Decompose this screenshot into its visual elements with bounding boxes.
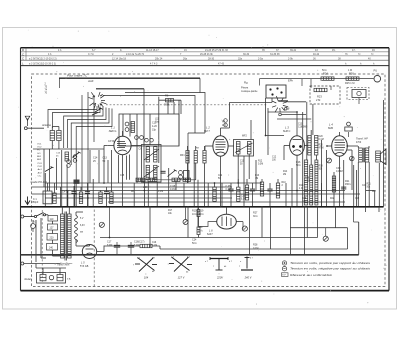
- svg-text:+11k: +11k: [305, 181, 311, 183]
- power transformer core: [65, 212, 67, 261]
- label L6: [207, 229, 213, 236]
- power transformer primary: [61, 214, 65, 258]
- svg-text:OC2: OC2: [37, 147, 42, 149]
- wire meas heater drop: [185, 207, 187, 220]
- wire rectifier leads: [76, 245, 140, 252]
- legend symbol EP box: [282, 273, 289, 277]
- trimmer pair C2 left: [73, 155, 77, 163]
- svg-text:R14: R14: [283, 171, 288, 173]
- resistor R20: [197, 227, 200, 235]
- bottom heavy rule: [21, 207, 359, 255]
- svg-text:0,05M: 0,05M: [336, 170, 343, 173]
- legend symbol minus: [282, 267, 286, 271]
- contact arrow mid: [73, 152, 81, 158]
- resistor R19: [197, 210, 200, 217]
- trimmer capacitor C16: [135, 136, 144, 140]
- tube L1 6E8: [114, 136, 131, 154]
- svg-text:4 7 4 3: 4 7 4 3: [150, 63, 158, 66]
- wire right bundle: [311, 100, 383, 207]
- label R10 fringe: [282, 182, 287, 187]
- measure point right: [323, 236, 328, 241]
- mains terminal top: [21, 215, 24, 218]
- junction block dark: [74, 180, 80, 184]
- wire L6 leads: [199, 207, 243, 227]
- antenna coil L11 primary: [50, 131, 54, 141]
- svg-text:R22: R22: [330, 198, 335, 200]
- legend symbol plus: [282, 261, 286, 265]
- pickup jack PU: [374, 75, 381, 82]
- IF transformer MF1 box: [142, 145, 162, 183]
- power section dashed separator: [93, 210, 95, 287]
- wire MF2 tails: [238, 154, 256, 207]
- svg-text:C26: C26: [302, 198, 307, 200]
- wire L4 leads: [327, 132, 358, 207]
- IF transformer MF1 coil c: [146, 165, 149, 179]
- wire antenna coil drop: [27, 127, 59, 150]
- trimmer pair C14: [67, 160, 71, 168]
- parts table values row 2: [48, 53, 374, 56]
- svg-text:2M: 2M: [283, 174, 286, 176]
- label R20: [198, 226, 203, 232]
- voltage tap box 110: [48, 216, 58, 222]
- switch contact wave: [168, 170, 177, 177]
- key jack box: [347, 88, 369, 100]
- detector transformer coils: [308, 136, 318, 156]
- wire transformer top stubs: [62, 207, 69, 214]
- wire R19 R20 link: [198, 207, 200, 238]
- wire L3 leads: [284, 112, 308, 207]
- wire left verticals: [44, 149, 75, 207]
- svg-text:1 M: 1 M: [299, 187, 303, 190]
- resistor R26: [346, 77, 359, 80]
- wire rail 5: [45, 197, 232, 199]
- rotary switch S1 lower arrows: [92, 108, 103, 115]
- svg-text:Relais: Relais: [25, 278, 33, 281]
- svg-text:110: 110: [50, 218, 54, 221]
- resistor R23: [314, 88, 327, 91]
- labels right column stack: [319, 136, 325, 171]
- svg-text:L 2: L 2: [206, 126, 210, 130]
- resistor R18: [315, 160, 318, 205]
- svg-text:R24: R24: [323, 72, 328, 76]
- relais lamp: [49, 275, 53, 279]
- wire L1 pin drops: [108, 155, 130, 184]
- svg-text:30 k: 30 k: [253, 215, 258, 218]
- wire osc to switch2: [230, 98, 273, 140]
- svg-text:L 08: L 08: [143, 187, 148, 189]
- switch S2 contact circles: [279, 108, 287, 116]
- wire fringe verticals right: [215, 168, 293, 207]
- svg-text:R18: R18: [305, 178, 310, 180]
- svg-text:R08: R08: [319, 166, 324, 168]
- svg-text:R26: R26: [349, 72, 354, 76]
- svg-text:6H8 C: 6H8 C: [283, 129, 290, 133]
- label C-05: [226, 185, 232, 191]
- svg-text:Pour ondes TC: Pour ondes TC: [67, 74, 88, 78]
- svg-text:50 k: 50 k: [322, 69, 327, 72]
- svg-text:1 M: 1 M: [348, 69, 352, 72]
- label Rg cadre prises: [241, 81, 258, 94]
- wire mains wiring: [24, 215, 61, 264]
- IF transformer MF2 coil b: [247, 142, 251, 155]
- svg-text:10 k: 10 k: [192, 213, 197, 216]
- svg-text:2-9b: 2-9b: [288, 58, 293, 61]
- HT secondary loops: [75, 212, 84, 246]
- capacitor C8: [160, 171, 165, 173]
- svg-text:240: 240: [49, 246, 54, 249]
- label C14: [93, 157, 98, 163]
- svg-text:32a: 32a: [238, 58, 243, 61]
- resistor R10 horizontal: [183, 178, 191, 181]
- trimmer capacitor C15: [125, 122, 129, 131]
- mains switch: [24, 213, 48, 218]
- rectifier tube L5: [82, 245, 96, 259]
- label C24: [192, 239, 197, 245]
- wire nested top horizontals: [103, 78, 205, 183]
- wire S2 outputs: [266, 98, 312, 155]
- wire fringe verticals left: [48, 179, 112, 207]
- wire rail AVC 2: [32, 186, 233, 188]
- label L3 6H8: [283, 126, 290, 134]
- svg-text:127 V: 127 V: [178, 276, 185, 280]
- resistor R3: [131, 122, 134, 133]
- label R9 100: [222, 121, 227, 127]
- wire top line 2: [96, 89, 144, 140]
- resistor R4: [99, 192, 102, 204]
- fuse: [31, 220, 36, 232]
- svg-text:GO: GO: [37, 153, 41, 155]
- switch linkage dashed: [106, 104, 268, 106]
- parts table frame: [21, 48, 390, 291]
- svg-text:1M: 1M: [255, 178, 258, 180]
- switch 240 pin labels: [239, 258, 254, 269]
- antenna coil L11 secondary: [57, 131, 61, 141]
- svg-text:0,1M: 0,1M: [158, 191, 163, 193]
- switch 104 pin labels: [133, 258, 156, 274]
- wire L3 plate feed: [268, 111, 298, 113]
- capacitor C4: [71, 192, 76, 194]
- wire fringe verticals mid: [134, 163, 208, 207]
- power transformer secondary: [68, 214, 72, 258]
- svg-text:a 2 9(7)9(12) 2-19 20-2 2): a 2 9(7)9(12) 2-19 20-2 2): [29, 58, 57, 61]
- svg-text:0,1M: 0,1M: [253, 247, 258, 250]
- label R19: [199, 210, 204, 216]
- svg-text:C13: C13: [298, 124, 303, 126]
- switch position diagram 127: [169, 257, 192, 272]
- wire antenna lead: [44, 128, 52, 132]
- wire cadre contact: [45, 167, 54, 172]
- svg-text:0,1M: 0,1M: [152, 245, 157, 247]
- svg-text:2-10 2a 7a 26 7b: 2-10 2a 7a 26 7b: [126, 53, 145, 56]
- svg-text:C3 50: C3 50: [108, 141, 115, 143]
- svg-text:30-32: 30-32: [243, 53, 250, 56]
- svg-text:0,1M: 0,1M: [319, 139, 324, 141]
- resistor R6: [166, 99, 174, 102]
- svg-text:6,3V: 6,3V: [80, 225, 85, 227]
- switch position diagram 220: [210, 257, 228, 270]
- capacitor C21: [267, 189, 272, 191]
- rotary switch S2 spokes: [272, 96, 288, 113]
- svg-text:104: 104: [144, 276, 149, 280]
- svg-text:R21: R21: [367, 184, 372, 186]
- trimmer pair C9 osc: [224, 119, 228, 127]
- resistor R24: [321, 77, 334, 80]
- svg-text:39-41: 39-41: [290, 49, 297, 52]
- switch 127 pin labels: [168, 257, 191, 274]
- svg-text:Rg: Rg: [244, 81, 248, 85]
- svg-text:Prise Plaque: Prise Plaque: [60, 263, 73, 265]
- svg-text:C 05: C 05: [244, 189, 250, 191]
- svg-text:390k: 390k: [164, 103, 170, 107]
- wire tuning nest 2: [82, 92, 94, 207]
- svg-text:127: 127: [50, 227, 55, 230]
- svg-text:R25 1 M: R25 1 M: [345, 82, 354, 85]
- wire top heavy TC line: [59, 77, 200, 79]
- parts table values row 1: [58, 49, 375, 52]
- output transformer windings: [359, 148, 369, 163]
- svg-text:OC1: OC1: [37, 144, 42, 146]
- resistor R8b: [194, 151, 197, 164]
- wire tuning nest 1: [48, 106, 112, 207]
- wire R23 drop: [330, 86, 332, 90]
- wire L2 leads: [205, 128, 234, 207]
- padder box C9b: [184, 171, 190, 180]
- svg-text:C16: C16: [241, 196, 246, 198]
- label R12 mid: [258, 161, 263, 166]
- tube L4 6M6: [332, 136, 348, 156]
- capacitor C23: [341, 187, 346, 189]
- svg-text:28-30: 28-30: [208, 58, 215, 61]
- svg-text:C20: C20: [319, 136, 324, 138]
- resistor R5 horizontal: [136, 178, 145, 181]
- resistor R14: [260, 182, 263, 196]
- choke resistor R22b: [140, 244, 152, 247]
- svg-text:MF1: MF1: [180, 155, 185, 157]
- resistor R1: [53, 193, 56, 204]
- svg-text:PO: PO: [37, 150, 40, 152]
- IF transformer MF1 tuning arrows: [144, 149, 159, 177]
- measure point power: [99, 222, 104, 227]
- label C17: [107, 241, 113, 247]
- switch position diagram 240: [241, 257, 253, 271]
- relais coil b: [57, 275, 63, 281]
- parts table row lines: [21, 48, 390, 61]
- svg-text:L 4: L 4: [329, 123, 333, 127]
- chassis dashed border: [32, 74, 386, 287]
- rotary switch S1 contact arrows: [93, 95, 103, 106]
- svg-text:45-: 45-: [332, 49, 336, 52]
- tube L3 6H8: [290, 136, 305, 156]
- resistor R15: [276, 183, 279, 198]
- resistor R12: [237, 187, 240, 201]
- resistor R8c: [203, 151, 206, 164]
- earth terminal: [25, 197, 30, 205]
- voltage tap box 240: [47, 244, 58, 251]
- wire rail screen: [60, 190, 345, 192]
- grid-cap resistor dashed box R23: [310, 86, 340, 104]
- svg-text:4700: 4700: [319, 148, 325, 150]
- svg-text:C18 5M5: C18 5M5: [298, 127, 308, 129]
- cadre coil L12: [65, 152, 69, 161]
- svg-text:9-: 9-: [120, 49, 122, 52]
- label C12: [272, 157, 277, 162]
- resistor R21: [332, 176, 335, 192]
- svg-text:0,3M: 0,3M: [258, 164, 263, 166]
- label L4 6M6: [328, 123, 334, 131]
- svg-text:EPh: EPh: [288, 79, 293, 83]
- wire R8 tails: [188, 146, 205, 183]
- relais box: [37, 273, 66, 284]
- label C1: [32, 198, 39, 204]
- wire rail AVC 1: [45, 182, 262, 184]
- power section dashed separator 2: [41, 210, 43, 283]
- svg-text:2 M: 2 M: [316, 98, 320, 102]
- resistor R2: [79, 192, 82, 204]
- band label column: [37, 144, 43, 178]
- label R28: [253, 244, 258, 250]
- label L1 6E8: [109, 126, 116, 134]
- wire TC line drop: [59, 78, 61, 88]
- box oscillator stage: [119, 114, 179, 146]
- resistor R11 mid: [213, 187, 216, 201]
- label C18: [134, 241, 145, 247]
- antenna terminal: [24, 127, 27, 130]
- svg-text:C15: C15: [120, 175, 125, 177]
- svg-text:15p: 15p: [152, 128, 157, 131]
- wire detector verticals: [303, 102, 327, 207]
- svg-text:Transf. HP: Transf. HP: [356, 138, 368, 141]
- rotary switch S2 bar: [279, 100, 289, 102]
- tube L6: [217, 214, 237, 229]
- svg-text:R12: R12: [258, 161, 263, 163]
- label C11: [240, 161, 245, 166]
- parts table row letters: [22, 48, 24, 65]
- label R18 fringe: [305, 178, 311, 183]
- svg-text:40-42: 40-42: [313, 53, 320, 56]
- capacitor C2: [104, 192, 109, 194]
- svg-text:L 3: L 3: [285, 126, 289, 130]
- svg-text:6AF7: 6AF7: [207, 233, 213, 236]
- wire oscillator feed: [159, 97, 181, 146]
- svg-text:Antenne: Antenne: [41, 124, 52, 127]
- svg-text:220: 220: [50, 236, 55, 239]
- svg-text:Prises: Prises: [241, 86, 249, 90]
- filter capacitor C18: [128, 242, 134, 255]
- svg-text:PU: PU: [374, 69, 378, 73]
- svg-text:50 k: 50 k: [192, 242, 197, 245]
- label C-08: [170, 185, 176, 191]
- svg-text:Tension en volts, négative par: Tension en volts, négative par rapport a…: [290, 267, 371, 271]
- svg-text:5 V: 5 V: [80, 218, 84, 220]
- wire relais leads: [36, 264, 66, 275]
- svg-text:R10: R10: [282, 182, 287, 184]
- IF transformer MF2 coil a: [236, 142, 240, 155]
- HT tap labels: [80, 218, 85, 234]
- wire top-right pickup line: [260, 79, 374, 88]
- svg-text:5Y3 GB: 5Y3 GB: [80, 265, 89, 268]
- wire filter out: [152, 245, 160, 247]
- resistor R0: [110, 192, 113, 204]
- chassis bus: [21, 206, 384, 208]
- svg-text:C16: C16: [152, 242, 157, 244]
- label C13: [103, 157, 108, 163]
- measure point output: [350, 156, 355, 161]
- tube L4 top cap: [345, 122, 352, 137]
- svg-text:musique-parole: musique-parole: [241, 90, 258, 93]
- padder capacitor labels: [152, 122, 157, 132]
- label R21 right: [367, 184, 372, 189]
- capacitor C22 labels: [296, 161, 352, 190]
- parts table values row 4: [29, 63, 375, 66]
- label transf HP: [356, 138, 368, 145]
- svg-text:R20: R20: [319, 145, 324, 147]
- svg-text:8 MF: 8 MF: [107, 244, 113, 247]
- wire meas drop: [325, 228, 327, 236]
- IF transformer MF1 coil d: [154, 165, 157, 179]
- wire key jack drop: [358, 98, 360, 105]
- svg-text:6E8 G: 6E8 G: [109, 129, 116, 133]
- capacitor C1 box: [43, 191, 52, 204]
- IF transformer MF2 arrow: [235, 143, 253, 153]
- IF transformer MF2 box: [234, 140, 254, 157]
- svg-text:47 43: 47 43: [218, 63, 225, 66]
- svg-text:C: C: [22, 57, 24, 61]
- wire rail 6: [108, 201, 345, 203]
- wire heater drop: [109, 207, 111, 238]
- label C25: [192, 210, 197, 216]
- parts table values row 3: [29, 58, 371, 61]
- label C16 supply: [120, 155, 377, 247]
- svg-text:11-13 15-17: 11-13 15-17: [146, 49, 159, 52]
- svg-text:8 MF: 8 MF: [134, 244, 140, 247]
- svg-text:34-36 38: 34-36 38: [270, 53, 280, 56]
- svg-text:C12: C12: [272, 157, 277, 159]
- IF transformer MF1 coil b: [154, 147, 157, 162]
- label L15 osc: [155, 119, 160, 124]
- switch position diagram 104: [135, 258, 157, 272]
- trimmer capacitor C6: [145, 138, 154, 142]
- label L5 5Y3: [80, 261, 89, 268]
- svg-text:26a: 26a: [183, 58, 188, 61]
- voltage tap box 127: [48, 224, 58, 230]
- wire L1 leads: [104, 131, 142, 207]
- svg-text:Cadre PO-GO: Cadre PO-GO: [31, 180, 47, 184]
- svg-text:C4 C7: C4 C7: [62, 190, 69, 193]
- svg-text:a 3 3(7)9(13)2-19 39-2 3): a 3 3(7)9(13)2-19 39-2 3): [29, 63, 56, 66]
- svg-text:250pF: 250pF: [32, 201, 39, 204]
- svg-text:21-23 25 27 29 31 33: 21-23 25 27 29 31 33: [205, 49, 228, 52]
- svg-text:6M6: 6M6: [328, 126, 334, 130]
- mains terminal bottom: [21, 262, 24, 265]
- loudspeaker: [376, 149, 386, 165]
- svg-text:20b 24: 20b 24: [155, 58, 163, 61]
- resistor R13: [245, 185, 248, 200]
- wire mid tall verticals: [90, 150, 127, 183]
- voltage tap box 220: [47, 234, 58, 241]
- relais coil a: [40, 275, 46, 281]
- switch 220 pin labels: [205, 261, 233, 268]
- antenna: [25, 116, 30, 126]
- wire L6 drop: [242, 222, 244, 229]
- svg-text:C 7-b: C 7-b: [88, 53, 95, 56]
- svg-text:C22: C22: [218, 175, 223, 177]
- wire speaker leads: [358, 146, 374, 207]
- resistor R7 horizontal: [148, 178, 157, 181]
- measure point heater: [183, 220, 188, 225]
- rotary switch S1 spokes: [89, 92, 107, 110]
- measure point R15: [327, 158, 332, 163]
- measure point L6: [242, 226, 247, 231]
